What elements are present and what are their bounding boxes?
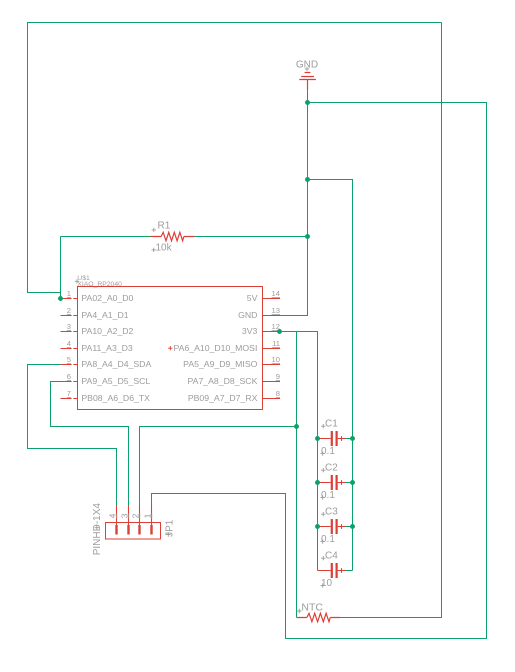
junction GND caps rail <box>305 177 310 182</box>
pin 9 PA7_A8_D8_SCK <box>188 372 280 386</box>
svg-text:2: 2 <box>67 306 71 315</box>
svg-text:8: 8 <box>276 389 280 398</box>
ground <box>296 60 318 91</box>
svg-text:PA9_A5_D5_SCL: PA9_A5_D5_SCL <box>81 376 150 386</box>
svg-text:C4: C4 <box>325 550 338 561</box>
svg-text:10: 10 <box>272 355 280 364</box>
wire SDA net: pin 5 to header pin 4 <box>28 365 117 506</box>
junction pin 12 3V3 <box>277 329 282 334</box>
junction GND R1 <box>305 234 310 239</box>
wire 3V3 net: vertical down to NTC left <box>296 332 298 618</box>
pin 6 PA9_A5_D5_SCL <box>61 372 151 386</box>
svg-text:2: 2 <box>130 513 140 518</box>
svg-text:PA4_A1_D1: PA4_A1_D1 <box>81 310 128 320</box>
svg-text:4: 4 <box>107 513 117 518</box>
svg-text:6: 6 <box>67 372 71 381</box>
svg-text:XIAO_RP2040: XIAO_RP2040 <box>77 281 122 288</box>
junction C2 left <box>315 480 320 485</box>
wire GND net: vertical from GND symbol down to pin 13 <box>280 90 308 315</box>
pin header JP1 PINHD-1X4 <box>92 503 176 556</box>
thermistor NTC <box>297 601 341 622</box>
wire GND net: loop right side down to header pin 1 <box>152 103 487 639</box>
svg-text:13: 13 <box>272 306 280 315</box>
resistor R1 <box>151 221 195 254</box>
junction GND top <box>305 100 310 105</box>
junction C2 right <box>350 480 355 485</box>
pin 14 5V <box>247 289 280 303</box>
wire 3V3 net: branch to header pin 2 <box>140 427 297 506</box>
svg-text:C2: C2 <box>325 462 338 473</box>
junction C1 right <box>350 436 355 441</box>
svg-text:11: 11 <box>272 339 280 348</box>
pin 3 PA10_A2_D2 <box>61 322 134 336</box>
pin 2 PA4_A1_D1 <box>61 306 129 320</box>
svg-text:5V: 5V <box>247 293 258 303</box>
svg-text:0.1: 0.1 <box>321 490 335 501</box>
svg-text:5: 5 <box>67 355 71 364</box>
junction 3V3 header branch <box>294 424 299 429</box>
svg-text:3: 3 <box>67 322 71 331</box>
junction pin 1 A0 <box>58 296 63 301</box>
IC U$1 XIAO_RP2040 <box>75 275 263 410</box>
svg-text:0.1: 0.1 <box>321 534 335 545</box>
svg-text:C1: C1 <box>325 418 338 429</box>
wire A0 net: NTC right lead to top loop <box>340 23 442 618</box>
pin 7 PB08_A6_D6_TX <box>61 389 151 403</box>
pin 4 PA11_A3_D3 <box>61 339 133 353</box>
svg-text:R1: R1 <box>158 221 171 232</box>
svg-text:GND: GND <box>238 310 257 320</box>
svg-text:3: 3 <box>119 513 129 518</box>
capacitor C1 <box>318 418 353 456</box>
svg-text:1: 1 <box>142 513 152 518</box>
pin 8 PB09_A7_D7_RX <box>188 389 280 403</box>
svg-text:1: 1 <box>67 289 71 298</box>
svg-text:PINHD-1X4: PINHD-1X4 <box>92 503 103 556</box>
junction C3 left <box>315 524 320 529</box>
svg-text:PA10_A2_D2: PA10_A2_D2 <box>81 326 133 336</box>
svg-text:9: 9 <box>276 372 280 381</box>
pin 5 PA8_A4_D4_SDA <box>61 355 152 369</box>
wire GND net: R1 right horizontal <box>195 236 308 238</box>
svg-text:NTC: NTC <box>301 601 323 613</box>
svg-text:PB08_A6_D6_TX: PB08_A6_D6_TX <box>81 393 150 403</box>
pin 10 PA5_A9_D9_MISO <box>183 355 280 369</box>
svg-text:PA11_A3_D3: PA11_A3_D3 <box>81 343 133 353</box>
capacitor C4 <box>318 550 353 588</box>
svg-text:14: 14 <box>272 289 280 298</box>
svg-text:0.1: 0.1 <box>321 446 335 457</box>
svg-text:C3: C3 <box>325 506 338 517</box>
svg-text:7: 7 <box>67 389 71 398</box>
wire 3V3 net: pin 12 to caps left rail <box>280 332 318 571</box>
svg-text:PA8_A4_D4_SDA: PA8_A4_D4_SDA <box>81 359 151 369</box>
svg-text:PA7_A8_D8_SCK: PA7_A8_D8_SCK <box>188 376 258 386</box>
pin 13 GND <box>238 306 280 320</box>
svg-text:4: 4 <box>67 339 71 348</box>
pin 12 3V3 <box>242 322 280 336</box>
pin 11 PA6_A10_D10_MOSI <box>174 339 280 353</box>
capacitor C3 <box>318 506 353 544</box>
wire A0 net: outer loop top-left <box>28 23 442 293</box>
svg-text:PA5_A9_D9_MISO: PA5_A9_D9_MISO <box>183 359 257 369</box>
svg-text:PB09_A7_D7_RX: PB09_A7_D7_RX <box>188 393 258 403</box>
wire A0 net: R1 left horizontal <box>61 236 151 238</box>
wire GND net: jumper to caps right rail <box>308 180 353 571</box>
svg-text:3V3: 3V3 <box>242 326 258 336</box>
junction C3 right <box>350 524 355 529</box>
svg-text:PA6_A10_D10_MOSI: PA6_A10_D10_MOSI <box>174 343 258 353</box>
svg-text:10k: 10k <box>156 242 173 253</box>
svg-text:PA02_A0_D0: PA02_A0_D0 <box>81 293 133 303</box>
capacitor C2 <box>318 462 353 500</box>
junction C1 left <box>315 436 320 441</box>
pin 1 PA02_A0_D0 <box>61 289 134 303</box>
wire SCL net: pin 6 to header pin 3 <box>51 382 129 506</box>
wire A0 net: R1 left down to pin 1 <box>60 237 62 299</box>
